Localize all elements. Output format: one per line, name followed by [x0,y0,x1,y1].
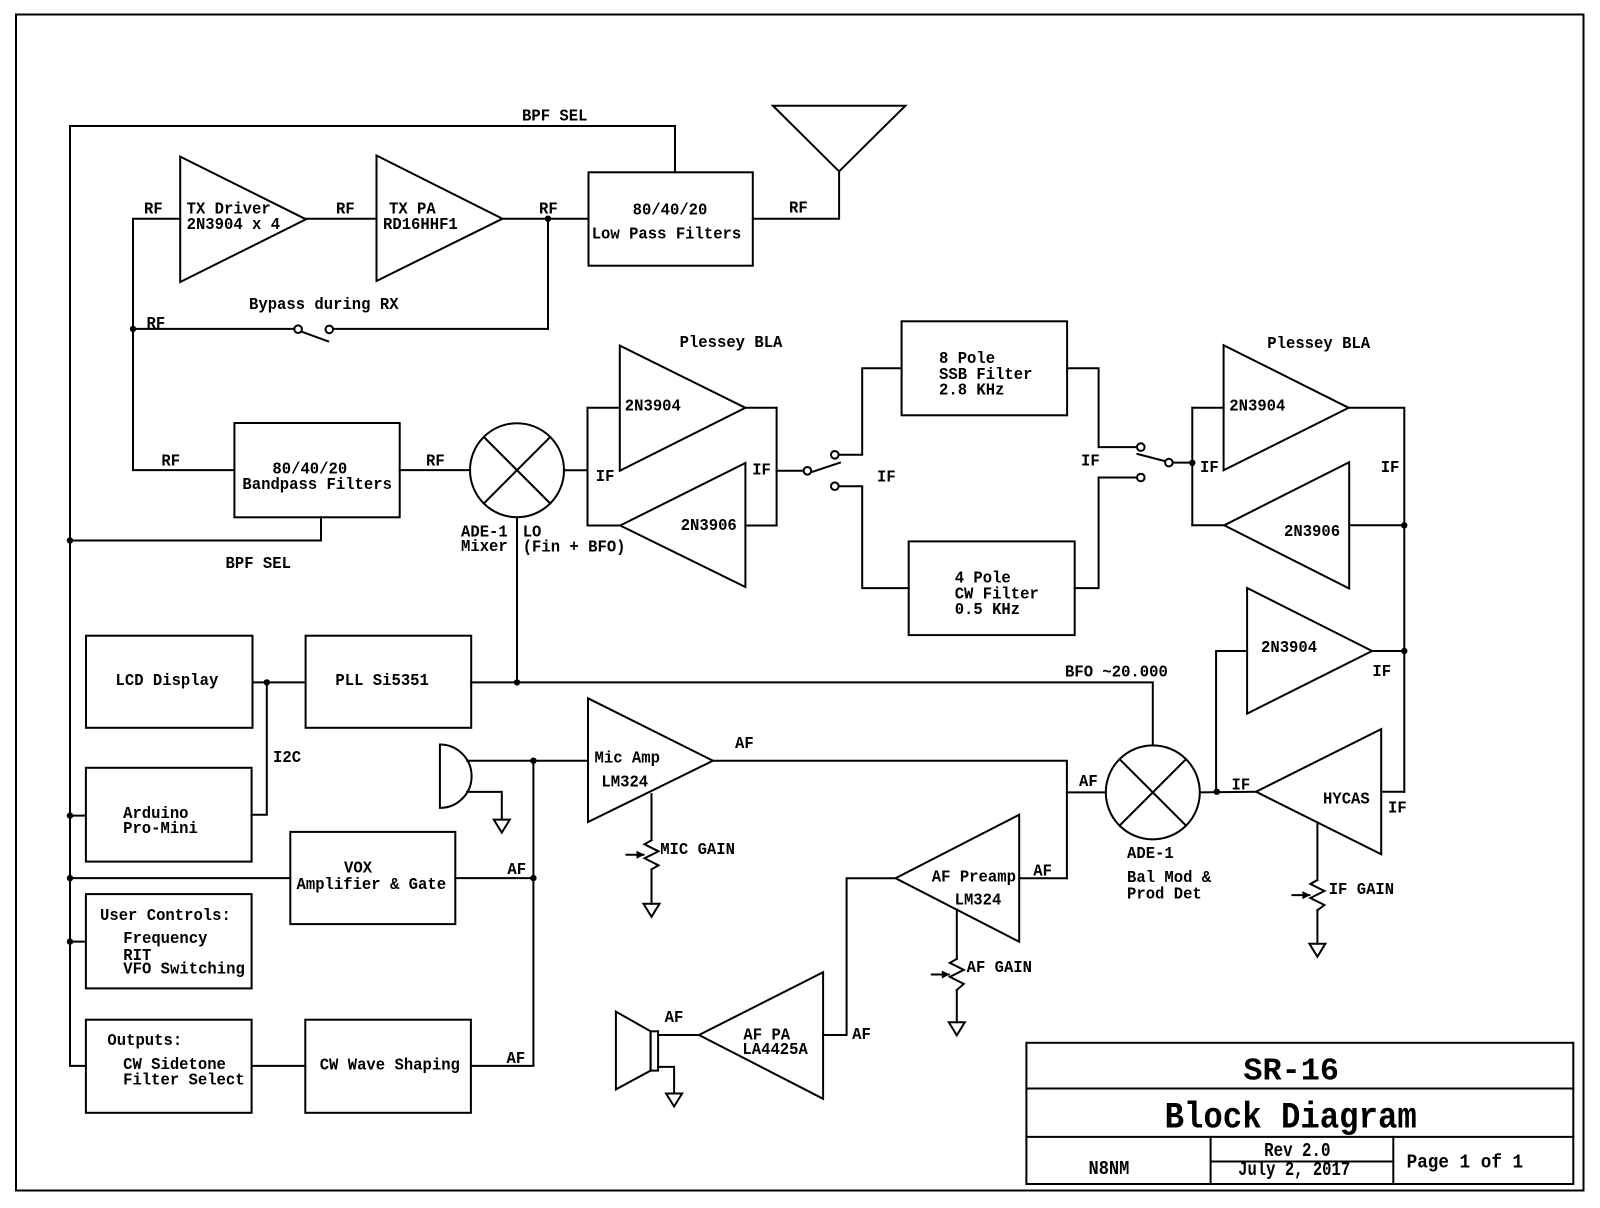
svg-text:RF: RF [161,451,180,471]
junction HYCAS input [1214,789,1220,795]
svg-text:2N3904: 2N3904 [1229,396,1285,416]
wire RF into Bandpass Filters [133,451,234,471]
svg-text:IF: IF [1381,457,1400,477]
svg-text:Filter Select: Filter Select [123,1070,245,1090]
wire RF TX PA to Low Pass Filters [503,199,589,219]
wire switch to CW filter [839,486,909,588]
block Outputs [86,1020,252,1113]
wire RF into TX Driver [133,199,180,470]
wire LCD to PLL [253,681,306,683]
wire 2N3906 output to left bus [588,525,621,527]
svg-text:July 2, 2017: July 2, 2017 [1238,1161,1350,1182]
svg-text:LA4425A: LA4425A [742,1039,808,1059]
potentiometer MIC GAIN [627,794,735,917]
svg-text:User Controls:: User Controls: [100,905,231,925]
wire RF Bandpass Filters to mixer [400,451,470,471]
svg-text:BPF SEL: BPF SEL [522,106,587,126]
junction LO on BFO wire [514,679,520,685]
wire switch to SSB filter [839,368,902,455]
svg-text:Plessey BLA: Plessey BLA [680,332,783,352]
wire 2N3904 output to right bus [745,407,776,409]
op-amp AF Preamp LM324 [896,815,1020,942]
svg-text:I2C: I2C [273,747,301,767]
wire AF PA to speaker [658,1007,699,1035]
title block frame [1026,1043,1573,1184]
antenna [773,106,906,219]
wire switch common to 2nd Plessey BLA [1173,462,1193,464]
svg-text:CW Wave Shaping: CW Wave Shaping [320,1055,460,1075]
amplifier 2N3904 BFO buffer [1247,588,1372,714]
wire BFO ~20.000 from PLL to Bal Mod mixer [471,662,1168,746]
net BPF SEL (top wire) [70,106,675,1066]
potentiometer IF GAIN [1292,822,1394,956]
wire left bus into Outputs [70,1065,86,1067]
svg-text:AF: AF [1079,771,1098,791]
junction mic AF bus [530,758,536,764]
svg-text:0.5 KHz: 0.5 KHz [955,600,1020,620]
svg-text:AF: AF [507,1048,526,1068]
svg-text:Block Diagram: Block Diagram [1165,1098,1417,1140]
potentiometer AF GAIN [932,910,1032,1036]
wire left bus to Arduino [70,815,86,817]
node IF bus left of 2nd Plessey BLA [1191,408,1193,525]
svg-text:IF: IF [1081,451,1100,471]
block Arduino Pro-Mini [86,768,252,862]
svg-text:RF: RF [426,451,445,471]
speaker [616,1012,658,1090]
wire IF HYCAS output to bus [1381,792,1406,818]
svg-text:Pro-Mini: Pro-Mini [123,818,198,838]
wire into Bal Mod mixer [1067,771,1106,792]
amplifier TX PA RD16HHF1 [377,156,503,282]
svg-text:Plessey BLA: Plessey BLA [1267,333,1370,353]
svg-text:LCD Display: LCD Display [116,670,219,690]
wire LO stem from PLL to mixer [517,517,626,682]
svg-text:IF GAIN: IF GAIN [1329,879,1394,899]
wire 2N3906 tip to left bus [1192,524,1224,526]
wire RF TX Driver to TX PA [306,199,377,219]
block CW Wave Shaping [305,1020,471,1113]
svg-text:2N3906: 2N3906 [1284,521,1340,541]
svg-text:2N3904: 2N3904 [625,396,681,416]
block LCD Display [86,636,253,728]
svg-text:VFO Switching: VFO Switching [123,959,245,979]
svg-text:Page 1 of 1: Page 1 of 1 [1407,1152,1524,1174]
svg-text:MIC GAIN: MIC GAIN [660,839,735,859]
svg-text:Bandpass Filters: Bandpass Filters [242,474,392,494]
svg-text:Mic Amp: Mic Amp [595,748,661,768]
junction AF bus at VOX [530,875,536,881]
svg-text:N8NM: N8NM [1089,1159,1130,1180]
svg-text:AF Preamp: AF Preamp [932,867,1016,887]
block VOX Amplifier & Gate [290,832,455,924]
junction TX PA output [545,216,551,222]
amplifier TX Driver 2N3904 x 4 [180,157,306,282]
svg-text:LM324: LM324 [955,890,1002,910]
junction on 2nd BLA left bus [1189,460,1195,466]
wire I2C [252,682,302,814]
switch filter select (output side) [1081,443,1173,481]
mixer ADE-1 [461,423,564,556]
svg-text:IF: IF [877,467,896,487]
svg-text:Amplifier & Gate: Amplifier & Gate [297,874,447,894]
wire AF Mic Amp output [713,733,1067,878]
svg-text:LM324: LM324 [601,772,648,792]
ground (microphone) [494,820,510,833]
wire mixer IF output [564,469,588,471]
op-amp Mic Amp LM324 [588,698,713,822]
amplifier 2N3904 (2nd Plessey BLA) [1224,333,1371,470]
op-amp HYCAS IF amp [1256,729,1381,854]
svg-text:AF GAIN: AF GAIN [967,957,1032,977]
svg-text:ADE-1: ADE-1 [1127,843,1174,863]
amplifier AF PA LA4425A [699,972,823,1099]
mic ground stub [467,792,502,820]
speaker ground stub [658,1067,674,1094]
block 4 Pole CW Filter 0.5 KHz [909,541,1075,635]
wire 2nd BLA 2N3904 output [1349,408,1405,792]
svg-text:RF: RF [144,199,163,219]
junction right bus upper [1401,522,1407,528]
amplifier 2N3904 (1st Plessey BLA) [620,332,783,470]
amplifier 2N3906 (1st Plessey BLA) [620,463,745,587]
mixer ADE-1 Bal Mod & Prod Det [1106,745,1212,903]
block 80/40/20 Low Pass Filters [589,172,753,265]
microphone [440,744,472,807]
wire right bus into 2N3906 [745,460,776,526]
wire left bus to VOX [70,877,290,879]
wire AF Preamp output [1019,861,1067,881]
svg-text:BFO ~20.000: BFO ~20.000 [1065,662,1168,682]
junction BPF SEL on left bus [67,537,73,543]
svg-text:2N3906: 2N3906 [681,515,737,535]
svg-text:Low Pass Filters: Low Pass Filters [592,224,742,244]
wire CW filter to output switch [1075,478,1137,589]
junction Arduino tap [67,812,73,818]
node IF bus left of 1st Plessey BLA [587,408,589,526]
svg-text:(Fin + BFO): (Fin + BFO) [523,537,626,557]
node IF bus right of 1st Plessey BLA [776,408,778,526]
block 8 Pole SSB Filter 2.8 KHz [902,321,1068,415]
svg-text:Rev 2.0: Rev 2.0 [1264,1141,1330,1163]
wire BFO buffer output [1372,651,1404,681]
svg-text:2N3904: 2N3904 [1261,637,1317,657]
wire SSB filter to output switch [1067,368,1137,447]
junction User Controls tap [67,938,73,944]
svg-text:IF: IF [1372,661,1391,681]
svg-text:2.8 KHz: 2.8 KHz [939,380,1004,400]
wire Outputs to CW Wave Shaping [252,1065,306,1067]
svg-text:IF: IF [752,460,771,480]
net BPF SEL from Bandpass Filters [70,517,321,573]
switch filter select (input side) [804,451,840,490]
svg-text:Prod Det: Prod Det [1127,884,1202,904]
svg-text:RF: RF [336,199,355,219]
junction bypass tap [130,326,136,332]
svg-text:AF: AF [735,733,754,753]
wire IF Bal Mod mixer to HYCAS [1200,775,1256,795]
switch bypass during RX [133,219,548,342]
svg-text:BPF SEL: BPF SEL [226,553,291,573]
wire left bus to User Controls [70,941,86,943]
wire into 2nd BLA 2N3904 [1192,408,1223,477]
junction right bus middle [1401,648,1407,654]
svg-text:80/40/20: 80/40/20 [633,200,708,220]
svg-text:Bypass during RX: Bypass during RX [249,294,399,314]
svg-text:2N3904 x 4: 2N3904 x 4 [187,215,281,235]
ground (speaker) [666,1094,682,1107]
svg-text:IF: IF [1200,457,1219,477]
junction I2C tap [264,679,270,685]
svg-text:Mixer: Mixer [461,537,508,557]
svg-text:AF: AF [665,1007,684,1027]
svg-text:RF: RF [147,313,166,333]
wire IF to filter select switch [777,467,896,487]
svg-text:PLL Si5351: PLL Si5351 [335,670,429,690]
block User Controls [86,894,252,988]
svg-text:HYCAS: HYCAS [1323,789,1370,809]
svg-text:RF: RF [789,198,808,218]
svg-text:RD16HHF1: RD16HHF1 [383,215,458,235]
wire into 2N3904 [588,408,620,486]
amplifier 2N3906 (2nd Plessey BLA) [1224,462,1349,588]
svg-text:Outputs:: Outputs: [107,1030,182,1050]
svg-text:IF: IF [1388,798,1407,818]
block PLL Si5351 [306,636,472,728]
wire 2N3906 to right bus [1349,457,1404,525]
svg-text:AF: AF [852,1024,871,1044]
wire RF Low Pass Filters to antenna [753,198,839,219]
svg-text:AF: AF [1033,861,1052,881]
wire microphone to Mic Amp [467,760,588,762]
svg-text:AF: AF [507,859,526,879]
svg-text:IF: IF [596,466,615,486]
wire AF Preamp input from AF PA node [823,878,895,1044]
block 80/40/20 Bandpass Filters [234,423,399,517]
svg-text:IF: IF [1232,775,1251,795]
svg-text:SR-16: SR-16 [1243,1055,1339,1090]
wire AF VOX output [455,859,533,879]
junction VOX tap [67,875,73,881]
wire into BFO buffer [1216,651,1247,792]
wire AF CW Wave Shaping output [471,761,534,1069]
